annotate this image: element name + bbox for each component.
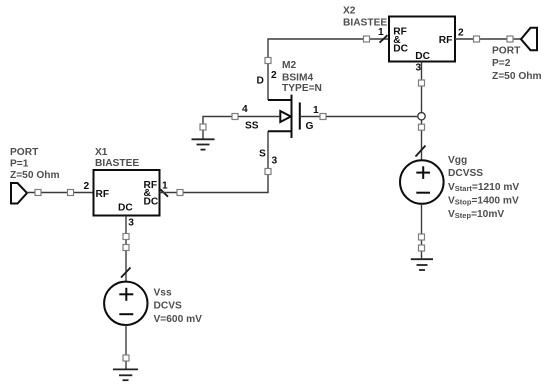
wire X2 pin2 to port P2 <box>455 36 521 42</box>
wire X1 pin1 to M2 source <box>160 131 272 195</box>
svg-text:Z=50 Ohm: Z=50 Ohm <box>492 71 542 82</box>
svg-text:4: 4 <box>242 104 248 115</box>
X2 pin1 tick <box>380 35 388 43</box>
ground below Vss <box>113 369 138 380</box>
Vss labels <box>154 288 203 326</box>
svg-text:3: 3 <box>128 218 134 229</box>
ground at SS <box>192 139 215 149</box>
svg-text:BIASTEE: BIASTEE <box>95 158 139 169</box>
voltage source Vgg DCVSS <box>400 160 444 204</box>
svg-text:P=1: P=1 <box>10 159 29 170</box>
svg-text:DCVSS: DCVSS <box>448 168 483 179</box>
port P2 symbol <box>521 28 537 50</box>
svg-text:S: S <box>259 148 266 159</box>
svg-text:DC: DC <box>144 196 159 207</box>
svg-text:D: D <box>257 75 264 86</box>
svg-text:VStart=1210 mV: VStart=1210 mV <box>448 182 519 193</box>
wire Vgg to ground <box>419 204 425 258</box>
SS pin labels 4 SS <box>242 104 259 132</box>
X2 pin name RF & DC (left stack) <box>393 26 408 54</box>
wire junction down to Vgg <box>419 120 425 160</box>
Vgg pin tick <box>416 146 426 157</box>
svg-text:BIASTEE: BIASTEE <box>343 18 387 29</box>
svg-text:DCVS: DCVS <box>154 301 183 312</box>
wire X1 pin3 down to Vss <box>123 216 129 282</box>
svg-text:G: G <box>306 121 314 132</box>
port P2 labels PORT P=2 Z=50 Ohm <box>492 46 542 83</box>
port P1 symbol <box>11 183 27 204</box>
port P1 labels PORT P=1 Z=50 Ohm <box>10 147 60 181</box>
Vss pin tick <box>121 268 131 278</box>
transistor M2 drain wire up and over to X2 <box>265 36 389 100</box>
svg-text:Vgg: Vgg <box>448 155 467 166</box>
svg-text:3: 3 <box>416 63 422 74</box>
svg-text:PORT: PORT <box>10 147 39 158</box>
svg-text:2: 2 <box>458 27 464 38</box>
M2 source pin labels S 3 <box>259 148 278 166</box>
svg-text:M2: M2 <box>282 60 296 71</box>
X1 BIASTEE name labels <box>95 147 139 169</box>
X1 pin1 tick <box>160 189 168 196</box>
Vgg labels <box>448 155 519 220</box>
wire Vss to ground <box>123 325 129 369</box>
svg-text:X2: X2 <box>343 6 356 17</box>
subcircuit X1 BIASTEE box <box>94 170 160 216</box>
svg-text:1: 1 <box>378 27 384 38</box>
svg-text:DC: DC <box>415 51 430 62</box>
X1 pin name RF & DC (right stack) <box>144 180 159 207</box>
svg-text:PORT: PORT <box>492 46 521 57</box>
svg-text:2: 2 <box>84 181 90 192</box>
M2 name labels <box>282 60 322 94</box>
M2 drain pin labels D 2 <box>257 70 278 86</box>
svg-text:RF: RF <box>439 35 453 46</box>
subcircuit X2 BIASTEE box <box>389 17 455 62</box>
svg-text:SS: SS <box>245 121 259 132</box>
svg-text:VStep=10mV: VStep=10mV <box>448 209 504 220</box>
junction node circle <box>418 113 425 120</box>
svg-text:V=600 mV: V=600 mV <box>154 314 203 325</box>
wire X2 pin3 down to junction <box>419 62 425 113</box>
svg-text:X1: X1 <box>95 147 108 158</box>
voltage source Vss DCVS <box>104 282 147 325</box>
svg-text:BSIM4: BSIM4 <box>282 73 313 84</box>
svg-text:Vss: Vss <box>154 288 172 299</box>
svg-text:1: 1 <box>162 181 168 192</box>
svg-text:P=2: P=2 <box>492 58 511 69</box>
M2 gate pin labels 1 G <box>306 105 320 132</box>
svg-text:VStop=1400 mV: VStop=1400 mV <box>448 195 519 206</box>
svg-text:DC: DC <box>393 43 408 54</box>
wire M2 bulk SS to ground <box>200 114 280 139</box>
svg-text:Z=50 Ohm: Z=50 Ohm <box>10 170 60 181</box>
svg-text:RF: RF <box>96 189 110 200</box>
svg-text:3: 3 <box>272 156 278 167</box>
ground below Vgg <box>411 259 433 270</box>
wire port1 to X1 pin2 <box>27 190 94 196</box>
svg-text:2: 2 <box>271 70 277 81</box>
X2 BIASTEE name labels <box>343 6 387 29</box>
wire gate to junction <box>301 114 417 120</box>
svg-text:DC: DC <box>118 203 133 214</box>
svg-text:TYPE=N: TYPE=N <box>282 83 322 94</box>
svg-text:1: 1 <box>313 105 319 116</box>
transistor M2 symbol <box>268 95 300 138</box>
